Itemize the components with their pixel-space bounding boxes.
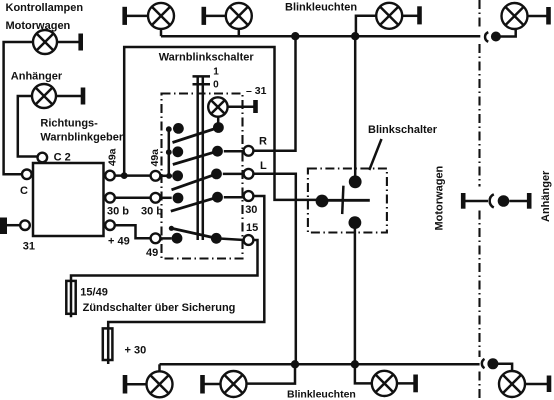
- svg-text:0: 0: [213, 80, 219, 91]
- svg-text:Blinkleuchten: Blinkleuchten: [287, 389, 356, 400]
- svg-text:+ 49: + 49: [108, 235, 130, 247]
- svg-text:30 b: 30 b: [141, 206, 163, 218]
- svg-text:C 2: C 2: [54, 152, 71, 164]
- svg-text:49a: 49a: [107, 148, 119, 166]
- svg-text:+ 30: + 30: [125, 345, 147, 357]
- svg-text:30 b: 30 b: [107, 206, 129, 218]
- svg-text:30: 30: [245, 204, 257, 216]
- svg-text:Warnblinkschalter: Warnblinkschalter: [159, 52, 255, 64]
- svg-text:Motorwagen: Motorwagen: [434, 165, 446, 230]
- svg-text:Blinkschalter: Blinkschalter: [368, 124, 438, 136]
- svg-text:Warnblinkgeber: Warnblinkgeber: [40, 132, 123, 144]
- svg-text:Anhänger: Anhänger: [540, 170, 552, 222]
- svg-text:49: 49: [146, 247, 158, 259]
- svg-text:Zündschalter über Sicherung: Zündschalter über Sicherung: [83, 302, 236, 314]
- svg-text:R: R: [259, 136, 267, 148]
- svg-text:– 31: – 31: [246, 85, 267, 97]
- svg-text:Kontrollampen: Kontrollampen: [6, 2, 84, 14]
- svg-text:49a: 49a: [149, 149, 161, 167]
- svg-text:15/49: 15/49: [80, 287, 108, 299]
- svg-text:L: L: [260, 160, 267, 172]
- svg-text:Motorwagen: Motorwagen: [6, 20, 71, 32]
- svg-text:Richtungs-: Richtungs-: [40, 118, 98, 130]
- svg-text:Anhänger: Anhänger: [11, 71, 63, 83]
- svg-text:15: 15: [246, 222, 258, 234]
- svg-text:1: 1: [213, 67, 219, 78]
- svg-text:31: 31: [23, 241, 35, 253]
- svg-text:C: C: [20, 185, 28, 197]
- svg-text:Blinkleuchten: Blinkleuchten: [285, 2, 357, 14]
